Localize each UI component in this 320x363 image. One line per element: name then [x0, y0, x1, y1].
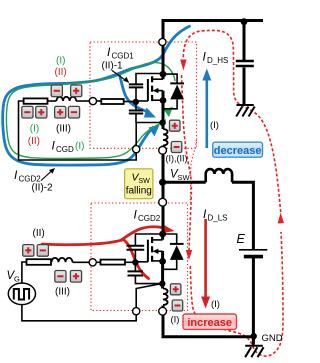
svg-text:(II)-2: (II)-2: [32, 183, 54, 194]
polarity box HS minus (above L): [51, 85, 62, 97]
svg-text:(I): (I): [171, 315, 180, 326]
wire LS diode bottom: [163, 260, 177, 269]
wire decap branch down: [243, 22, 246, 60]
svg-text:SW: SW: [139, 178, 151, 185]
polarity box HS plus (below L): [55, 106, 66, 118]
resistor HS gate R (driver): [24, 98, 48, 103]
capacitor DC link decap: [236, 61, 254, 66]
svg-text:(II): (II): [55, 67, 67, 78]
wire HS CGS branch down: [135, 102, 137, 123]
battery E long plate: [239, 249, 267, 251]
wire LS source rail segment: [161, 251, 164, 289]
label VSW node: [170, 169, 191, 183]
node HS drain: [160, 71, 167, 78]
label I_D_HS: [203, 50, 229, 66]
diode LS body diode: [170, 244, 184, 260]
arrowhead red path: [162, 224, 175, 233]
wire HS source rail segment: [162, 91, 165, 129]
node probe HS driver: [89, 98, 96, 105]
wire top DC bus: [163, 21, 263, 75]
callout decrease box: [213, 142, 263, 157]
wire LS drain stub rail: [161, 234, 164, 240]
inductor LS source parasitic: [163, 289, 168, 306]
label I_CGD: [52, 139, 75, 155]
resistor LS gate R2 (internal): [101, 260, 126, 265]
wire decap to ground: [243, 68, 246, 105]
label I_D_LS: [203, 207, 228, 223]
node probe HS gate return: [133, 146, 140, 153]
wire blue gate loop: [3, 26, 190, 165]
dotted box HS region: [90, 42, 197, 148]
wire HS drain stub rail: [162, 74, 165, 79]
arrowhead blue loop: [149, 125, 160, 137]
wire HS inductor wire R1-L: [48, 100, 57, 102]
svg-text:(I): (I): [30, 124, 39, 135]
polarity box HS plus (above L): [71, 85, 82, 97]
node probe LS source: [159, 307, 167, 315]
wire green gate loop: [6, 63, 175, 159]
wire HS gate lead: [136, 100, 148, 102]
wire LS gate: VG top lead: [22, 262, 27, 283]
transistor LS MOSFET: [148, 237, 163, 262]
wire red branch to arrow: [121, 227, 164, 241]
node LS drain: [159, 231, 166, 238]
transistor HS MOSFET: [148, 76, 163, 101]
svg-text:(II)-1: (II)-1: [102, 61, 124, 72]
wire LS CGS2 branch down: [135, 262, 161, 283]
polarity box LS plus (above R): [23, 245, 34, 257]
arrowhead blue branch: [144, 108, 156, 118]
arrowhead green loop: [164, 107, 174, 117]
wire LS VG bottom lead: [22, 305, 136, 321]
label I_CGD2 left: [14, 168, 41, 184]
svg-text:SW: SW: [178, 173, 191, 182]
wire HS R2 to gate node: [124, 101, 136, 103]
svg-text:increase: increase: [187, 317, 232, 329]
svg-text:D_HS: D_HS: [207, 56, 228, 65]
node probe HS source: [159, 146, 167, 154]
svg-text:(I),(II): (I),(II): [166, 153, 188, 163]
label I_CGD1: [107, 45, 134, 61]
polarity box HS Ls minus: [171, 142, 182, 153]
node probe LS gate return: [133, 308, 140, 315]
node HS kelvin: [159, 120, 165, 126]
svg-text:(I): (I): [210, 120, 219, 131]
capacitor HS CGS: [129, 111, 143, 114]
wire HS source inductor lower to VSW: [162, 146, 165, 235]
node probe VSW lower: [159, 198, 167, 206]
label VG: [7, 270, 21, 284]
node top bus junction: [241, 18, 248, 25]
arrowhead commutation loop down (HS): [180, 60, 186, 71]
wire HS circle to R2: [96, 100, 101, 102]
wire red gate current path: [42, 240, 149, 279]
arrowhead commutation loop down (LS): [186, 250, 192, 260]
resistor LS gate R (driver): [27, 259, 52, 265]
wire HS diode top: [163, 74, 177, 83]
svg-text:(II): (II): [28, 136, 40, 147]
dotted box LS region: [91, 203, 188, 311]
svg-text:decrease: decrease: [214, 145, 262, 157]
svg-text:CGD2: CGD2: [138, 214, 161, 223]
node probe top bus: [159, 38, 166, 45]
wire HS L to circle: [76, 100, 89, 102]
polarity box HS Ls plus: [170, 120, 181, 131]
wire LS R1 to L: [50, 261, 53, 263]
wire LS diode top: [163, 234, 177, 244]
polarity box LS Ls minus: [172, 300, 183, 311]
node LS gate junction: [132, 259, 138, 265]
label pointer arrow (II)-2: [41, 168, 55, 181]
polarity box HS plus (below R): [36, 106, 47, 118]
node GND junction: [251, 333, 257, 339]
source VG square-wave generator: [8, 283, 35, 305]
svg-text:(II): (II): [33, 228, 45, 239]
callout increase box: [183, 314, 237, 329]
inductor LS gate loop L: [52, 258, 73, 262]
diode HS body diode: [170, 83, 184, 99]
polarity box LS plus (below L): [70, 271, 81, 283]
ground GND (bottom): [245, 339, 264, 357]
arrowhead HS MOSFET body: [153, 88, 159, 93]
polarity box LS minus (below L): [55, 271, 66, 283]
svg-text:(I): (I): [75, 141, 84, 152]
dotted link line between boxes: [190, 140, 196, 203]
svg-text:falling: falling: [126, 186, 152, 197]
wire LS gate lead: [135, 261, 148, 263]
wire load inductor right to E: [232, 182, 253, 249]
svg-text:(III): (III): [56, 124, 71, 135]
inductor HS gate loop L: [56, 97, 76, 101]
wire HS circle to CGS junction: [136, 123, 162, 146]
wire HS CGD branch up: [136, 74, 163, 102]
svg-text:D_LS: D_LS: [208, 214, 228, 223]
resistor HS gate R2 (internal): [101, 99, 123, 104]
node probe LS driver: [89, 259, 96, 266]
wire blue branch through caps: [119, 74, 148, 112]
inductor load: [206, 169, 232, 182]
node HS gate junction: [133, 99, 139, 105]
node VSW: [159, 179, 166, 186]
wire HS gate loop outline: [19, 101, 137, 160]
wire LS source inductor lower to GND: [163, 306, 254, 337]
wire LS circle up diagonal to kelvin: [136, 284, 161, 308]
polarity box LS minus (above R): [37, 245, 48, 257]
svg-text:G: G: [14, 275, 20, 284]
capacitor HS CGD: [129, 84, 143, 87]
inductor HS source parasitic: [163, 129, 168, 146]
svg-text:GND: GND: [262, 333, 283, 344]
ground decap (top right): [236, 105, 255, 117]
arrow ID_LS (red, down): [201, 219, 210, 309]
node HS source: [160, 97, 167, 104]
capacitor LS CGS2: [128, 271, 144, 275]
svg-text:(III): (III): [55, 287, 70, 298]
arrowhead LS MOSFET body: [153, 249, 159, 254]
svg-text:CGD1: CGD1: [112, 52, 135, 61]
node LS kelvin: [159, 280, 165, 286]
label pointer arrow (II)-1: [112, 71, 129, 84]
arrow ID_HS (blue, up): [202, 69, 211, 149]
wire E to GND node: [252, 258, 255, 345]
wire LS CGD2 branch up: [135, 234, 162, 262]
label I_CGD2 near LS mosfet: [134, 208, 161, 224]
node LS source: [159, 258, 166, 265]
polarity box HS minus (below R): [22, 106, 33, 118]
svg-text:CGD: CGD: [56, 145, 74, 154]
svg-text:(I): (I): [56, 56, 65, 67]
battery E short thick plate: [244, 255, 263, 259]
wire LS circle to R2: [96, 261, 100, 263]
wire LS L to circle: [73, 261, 90, 263]
capacitor LS CGD2: [127, 246, 145, 250]
polarity box LS Ls plus: [170, 284, 181, 295]
arrowhead commutation loop up (right): [278, 213, 284, 224]
polarity box HS minus2 (below L): [68, 106, 79, 118]
svg-text:(I): (I): [211, 299, 220, 310]
callout VSW falling box: [125, 169, 153, 199]
wire HS diode bottom: [163, 99, 177, 108]
wire VSW to load: [162, 181, 206, 184]
wire commutation loop path: [182, 30, 284, 356]
svg-text:E: E: [237, 232, 246, 246]
wire LS R2 to gate node: [125, 261, 135, 263]
